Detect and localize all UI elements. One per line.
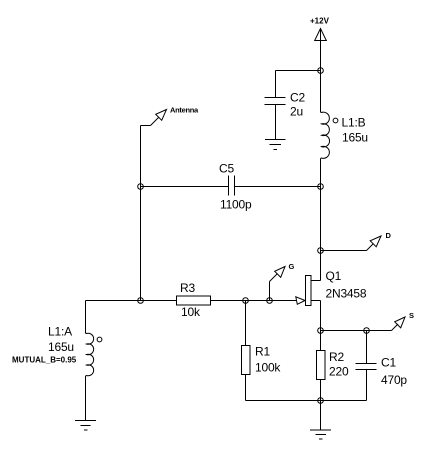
wire left column top [85, 301, 87, 334]
wire L1:A bottom to ground [85, 376, 87, 421]
wire node D to D flag [321, 250, 367, 252]
wire source row to C1 [321, 330, 367, 332]
power +12V symbol [315, 29, 327, 41]
inductor L1:A [86, 333, 94, 376]
L1:B phase dot [333, 118, 338, 123]
svg-text:L1:B: L1:B [342, 116, 366, 130]
svg-text:G: G [289, 262, 295, 271]
svg-text:2u: 2u [290, 105, 303, 119]
capacitor C2 [265, 97, 286, 99]
wire node V1 to C2 top [276, 70, 321, 72]
node N2 junction [318, 184, 324, 190]
wire bottom node to ground [320, 401, 322, 431]
svg-text:+12V: +12V [310, 17, 330, 26]
node S1 junction (source/R2) [318, 328, 324, 334]
resistor R3 [177, 296, 211, 305]
node B1 junction (bottom) [318, 398, 324, 404]
wire antenna vertical [140, 126, 142, 301]
svg-text:10k: 10k [181, 305, 201, 319]
node G1 junction (R1 tap) [243, 298, 249, 304]
node G2 junction (G flag) [267, 298, 273, 304]
D flag [367, 236, 382, 251]
wire R2 top lead [320, 331, 322, 351]
svg-text:Antenna: Antenna [170, 106, 199, 115]
wire drain lead [320, 251, 322, 281]
wire node N2 to node D [320, 187, 322, 251]
svg-text:C5: C5 [219, 162, 234, 176]
svg-text:R2: R2 [329, 350, 344, 364]
resistor R2 [317, 351, 326, 380]
wire source lead [311, 300, 321, 302]
wire node A1 to C5 left [141, 186, 229, 188]
svg-text:470p: 470p [381, 373, 407, 387]
resistor R1 [242, 346, 251, 375]
ground (bottom) [310, 430, 331, 439]
Q1 gate arrowhead [296, 297, 305, 305]
svg-text:C2: C2 [290, 91, 305, 105]
wire +12V stem to node V1 [320, 29, 322, 71]
wire R2 bottom lead [320, 380, 322, 401]
wire R1 top lead [245, 301, 247, 346]
wire to S flag [367, 330, 392, 332]
node A2 junction (antenna/gate row) [138, 298, 144, 304]
wire R1 bottom lead [245, 375, 247, 401]
wire gate row left [86, 300, 177, 302]
transistor Q1 channel bar [306, 276, 312, 306]
node D junction [318, 248, 324, 254]
node S2 junction (C1 tap) [364, 328, 370, 334]
node V1 junction [318, 68, 324, 74]
S flag [392, 317, 406, 331]
wire C1 bottom lead [366, 370, 368, 401]
svg-text:R3: R3 [180, 281, 195, 295]
wire gate row right [211, 300, 297, 302]
ground (under C2) [265, 140, 286, 150]
svg-text:S: S [409, 311, 414, 320]
ground (under L1:A) [75, 421, 96, 431]
wire bottom row [246, 400, 367, 402]
svg-text:1100p: 1100p [220, 198, 252, 212]
svg-text:220: 220 [329, 365, 349, 379]
wire C1 top lead [366, 331, 368, 364]
wire C5 right to node N2 [235, 186, 321, 188]
wire node V1 to L1:B top [320, 71, 322, 113]
wire C2 bottom to ground [275, 105, 277, 140]
capacitor C1 [356, 363, 377, 365]
wire L1:B bottom to node N2 [320, 159, 322, 187]
svg-text:D: D [386, 231, 392, 240]
svg-text:Q1: Q1 [326, 269, 342, 283]
antenna flag [141, 110, 167, 126]
node A1 junction (antenna/C5) [138, 184, 144, 190]
svg-text:C1: C1 [381, 356, 396, 370]
svg-text:165u: 165u [342, 131, 368, 145]
svg-text:L1:A: L1:A [48, 325, 72, 339]
svg-text:R1: R1 [255, 345, 270, 359]
capacitor C5 [228, 176, 230, 196]
L1:A phase dot [97, 337, 102, 342]
svg-text:MUTUAL_B=0.95: MUTUAL_B=0.95 [12, 356, 77, 365]
svg-text:165u: 165u [48, 340, 74, 354]
svg-text:100k: 100k [255, 361, 281, 375]
G flag [270, 267, 286, 301]
svg-text:2N3458: 2N3458 [326, 287, 367, 301]
inductor L1:B [321, 112, 330, 159]
